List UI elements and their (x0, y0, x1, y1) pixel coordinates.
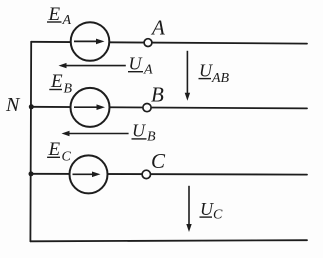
wire phase A (31, 42, 307, 44)
node terminal C (open circle) (142, 170, 150, 178)
arrow U_B (points left) (62, 131, 129, 136)
svg-text:U: U (132, 121, 146, 141)
label U_C with underline (200, 199, 224, 223)
label U_A with underline (128, 54, 153, 78)
EMF source U1 circle E_A (71, 22, 110, 61)
label E_B with underline (49, 71, 72, 97)
svg-text:B: B (147, 130, 156, 145)
svg-text:C: C (213, 208, 223, 223)
svg-text:AB: AB (211, 71, 230, 86)
svg-text:U: U (200, 199, 214, 219)
svg-text:C: C (151, 149, 166, 173)
wire phase B (31, 107, 307, 109)
node junction at B on bus (29, 104, 34, 109)
wire neutral bus vertical (29, 42, 32, 242)
label E_A with underline (47, 4, 72, 28)
svg-text:C: C (62, 150, 72, 165)
svg-text:U: U (199, 60, 213, 80)
arrow inside source E_B (74, 104, 105, 110)
arrow U_AB (points down) (185, 51, 190, 101)
EMF source U2 circle E_B (71, 88, 110, 127)
arrow U_A (points left) (59, 63, 126, 68)
label U_AB with underline (199, 60, 230, 86)
label E_C with underline (47, 139, 71, 165)
wire phase C (31, 173, 307, 176)
arrow U_C (points down) (186, 186, 191, 232)
svg-text:B: B (151, 83, 164, 107)
svg-text:A: A (143, 63, 153, 78)
arrow inside source E_C (73, 172, 101, 178)
node junction at C on bus (29, 171, 34, 176)
svg-text:N: N (5, 94, 21, 116)
arrow inside source E_A (74, 39, 105, 45)
svg-text:A: A (62, 13, 72, 28)
EMF source U3 circle E_C (70, 155, 108, 193)
svg-text:A: A (150, 15, 165, 39)
node terminal B (open circle) (143, 104, 151, 112)
label U_B with underline (132, 121, 157, 145)
svg-text:B: B (64, 82, 73, 97)
svg-text:U: U (129, 54, 143, 74)
wire neutral bottom (30, 240, 307, 241)
node terminal A (open circle) (144, 39, 152, 47)
